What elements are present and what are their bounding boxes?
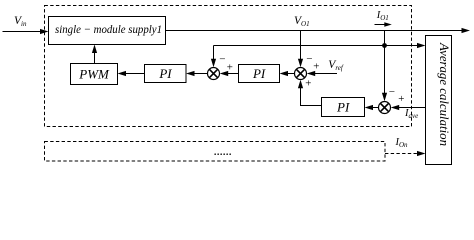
svg-text:PI: PI: [336, 100, 350, 115]
svg-text:−: −: [388, 86, 395, 98]
svg-text:single − module supply1: single − module supply1: [55, 22, 162, 36]
svg-text:+: +: [313, 61, 320, 73]
svg-text:+: +: [305, 78, 312, 90]
svg-text:PI: PI: [158, 66, 172, 81]
svg-text:+: +: [398, 93, 405, 105]
svg-text:PI: PI: [252, 66, 266, 81]
svg-text:......: ......: [214, 144, 232, 159]
svg-text:−: −: [219, 54, 226, 66]
svg-text:Average calculation: Average calculation: [437, 42, 452, 146]
svg-text:PWM: PWM: [78, 67, 110, 82]
svg-text:+: +: [226, 62, 233, 74]
